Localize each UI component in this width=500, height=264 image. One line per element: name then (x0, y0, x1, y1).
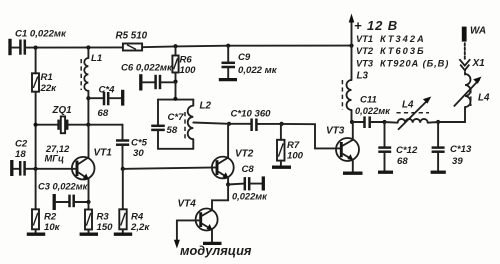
ground R7 (272, 161, 291, 168)
svg-text:С*13: С*13 (450, 144, 472, 155)
wire to R4 (122, 169, 124, 209)
ground R2 (27, 229, 45, 234)
svg-text:R4: R4 (131, 212, 144, 223)
svg-text:С6 0,022мк: С6 0,022мк (121, 63, 173, 74)
wire L1 to collector node (87, 91, 89, 125)
capacitor C11 (352, 95, 391, 129)
svg-text:VT3: VT3 (356, 59, 374, 69)
inductor L4 (variable, left) (385, 97, 432, 130)
svg-text:0,022мк: 0,022мк (232, 192, 268, 202)
svg-text:VT4: VT4 (178, 199, 197, 210)
node ZQ1 left (34, 123, 38, 127)
svg-text:L2: L2 (200, 101, 212, 112)
capacitor C8 (228, 164, 268, 202)
svg-text:МГц: МГц (45, 154, 64, 164)
node collector VT2 (227, 122, 231, 126)
svg-text:30: 30 (133, 148, 144, 159)
svg-text:0,022 мк: 0,022 мк (238, 65, 278, 76)
resistor R4 (119, 209, 150, 233)
resistor R5 (116, 31, 148, 51)
wire tank top (158, 99, 193, 101)
node base VT1 (34, 167, 38, 171)
node L3 / collector VT3 (350, 120, 354, 124)
capacitor C*13 (431, 122, 472, 172)
svg-text:R6: R6 (180, 55, 193, 66)
tank L2 / C*7 (151, 97, 211, 149)
capacitor C*10 (229, 109, 282, 132)
inductor L3 (342, 46, 368, 122)
svg-text:0,022мк: 0,022мк (355, 106, 391, 116)
wire VT2 emitter to VT4 collector (212, 185, 228, 211)
wire left vertical (35, 92, 37, 169)
transistor VT1 (72, 125, 112, 202)
svg-text:VT2: VT2 (356, 46, 374, 56)
svg-text:VT1: VT1 (94, 148, 113, 159)
svg-text:68: 68 (397, 156, 408, 167)
svg-text:КТ603Б: КТ603Б (380, 46, 426, 56)
node R7 (280, 122, 284, 126)
crystal ZQ1 (36, 105, 123, 133)
node emitter VT1 (86, 200, 90, 204)
capacitor C6 (121, 63, 176, 91)
svg-text:R1: R1 (41, 72, 53, 83)
capacitor C2 (12, 139, 77, 177)
node ZQ1 right / VT1 collector (86, 123, 90, 127)
svg-text:100: 100 (180, 65, 197, 76)
svg-text:L3: L3 (357, 71, 369, 82)
ground VT4 emitter (203, 242, 222, 245)
capacitor C1 (10, 29, 67, 56)
svg-text:100: 100 (287, 151, 304, 162)
svg-text:R7: R7 (287, 140, 300, 151)
svg-text:модуляция: модуляция (180, 243, 252, 258)
svg-text:С2: С2 (15, 139, 28, 150)
transistor VT4 (178, 199, 218, 243)
node top-C (173, 44, 177, 48)
wire VT4 base / modulation input arrow (174, 220, 252, 258)
wire C13 node to antenna branch (438, 107, 465, 122)
node top-D (226, 44, 230, 48)
resistor R3 (85, 202, 113, 233)
svg-text:39: 39 (452, 156, 463, 167)
capacitor C3 (38, 182, 89, 211)
svg-text:R2: R2 (44, 212, 57, 223)
node C12 (382, 120, 386, 124)
svg-text:VT1: VT1 (356, 34, 373, 44)
svg-text:VT2: VT2 (235, 149, 254, 160)
ground R4 (114, 229, 132, 234)
resistor R6 (172, 46, 196, 76)
svg-text:С*10 360: С*10 360 (231, 109, 272, 120)
wire top rail left (36, 46, 123, 48)
svg-text:WA: WA (470, 26, 486, 37)
wire L4 to C13 node (428, 121, 438, 124)
svg-text:L4: L4 (478, 93, 490, 104)
svg-text:С1 0,022мк: С1 0,022мк (15, 29, 67, 40)
antenna WA (462, 26, 486, 42)
node emitter VT2 (226, 182, 230, 186)
label 27,12 MHz (45, 144, 71, 164)
resistor R1 (32, 48, 57, 94)
svg-text:VT3: VT3 (326, 126, 345, 137)
wire base VT2 (123, 167, 217, 169)
transistor type list (356, 34, 449, 69)
inductor L1 (81, 48, 102, 91)
svg-text:L4: L4 (402, 100, 414, 111)
wire R6 to tank (175, 73, 177, 100)
svg-text:10к: 10к (44, 222, 61, 233)
node L1/C4 (86, 96, 90, 100)
capacitor C*4 (88, 85, 122, 120)
wire tank bottom (158, 148, 193, 150)
transistor VT2 (212, 124, 254, 185)
svg-text:ZQ1: ZQ1 (52, 105, 72, 116)
svg-text:КТ920А (Б,В): КТ920А (Б,В) (380, 59, 449, 69)
+12V supply arrow (349, 14, 398, 46)
svg-text:X1: X1 (472, 58, 486, 69)
svg-text:С8: С8 (242, 164, 255, 175)
capacitor C9 (219, 46, 278, 80)
svg-text:С*4: С*4 (99, 85, 116, 96)
node tank top (173, 97, 177, 101)
svg-text:58: 58 (167, 125, 178, 136)
svg-text:С*12: С*12 (396, 145, 418, 156)
svg-text:С11: С11 (360, 95, 377, 106)
ground VT3 emitter (343, 172, 363, 175)
node C13 (436, 120, 440, 124)
node top-B (86, 45, 90, 49)
svg-text:2,2к: 2,2к (130, 222, 150, 233)
capacitor C*7 (157, 100, 159, 125)
node top-A (34, 46, 38, 50)
capacitor C*12 (378, 122, 418, 172)
inductor L4 (variable, right) (454, 74, 490, 107)
wire to R2 (35, 169, 37, 210)
wire top rail right (142, 46, 351, 48)
transistor VT3 (326, 122, 359, 172)
svg-text:КТ342А: КТ342А (380, 34, 426, 44)
capacitor C*5 (116, 125, 148, 169)
svg-text:С3 0,022мк: С3 0,022мк (38, 182, 89, 192)
resistor R2 (32, 209, 61, 233)
node top-E (349, 44, 353, 48)
wire L2 tap to VT2 collector node (193, 123, 229, 124)
svg-text:18: 18 (15, 149, 26, 160)
node C6/R6 (173, 80, 177, 84)
svg-text:С*7: С*7 (168, 112, 185, 123)
resistor R7 (277, 124, 304, 162)
svg-text:R3: R3 (97, 212, 110, 223)
connector X1 (459, 42, 485, 75)
svg-text:С*5: С*5 (131, 138, 148, 149)
svg-text:150: 150 (97, 222, 114, 233)
svg-text:22к: 22к (40, 83, 58, 94)
inductor L2 (192, 100, 194, 106)
svg-text:27,12: 27,12 (45, 144, 70, 154)
svg-text:L1: L1 (91, 53, 102, 64)
svg-text:R5 510: R5 510 (116, 31, 148, 42)
svg-text:С9: С9 (238, 52, 251, 63)
svg-text:68: 68 (98, 108, 109, 119)
node C5/R4/base VT2 (121, 167, 125, 171)
ground R3 (80, 230, 98, 235)
wire to VT3 base (282, 124, 341, 148)
svg-text:+ 12 В: + 12 В (354, 18, 398, 33)
